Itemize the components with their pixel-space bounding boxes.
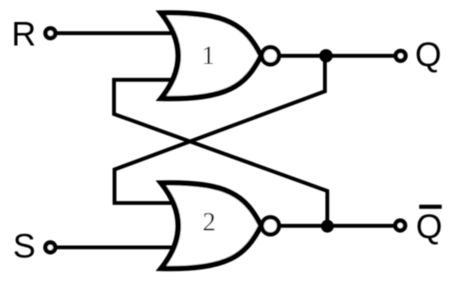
wire feedback Qbar to gate1 lower input xyxy=(114,80,327,226)
overline of Qbar xyxy=(419,205,442,209)
terminal S xyxy=(45,243,55,253)
svg-text:S: S xyxy=(13,228,36,266)
inverter bubble gate1 xyxy=(262,47,279,64)
svg-text:1: 1 xyxy=(202,41,215,70)
terminal Qbar xyxy=(395,221,405,231)
node Q junction xyxy=(319,49,332,62)
terminal R xyxy=(46,28,56,38)
wire feedback Q to gate2 upper input xyxy=(115,56,325,203)
wire S input xyxy=(55,245,174,249)
svg-text:R: R xyxy=(12,15,37,53)
node Qbar junction xyxy=(321,220,334,233)
inverter bubble gate2 xyxy=(262,217,279,234)
wire Qbar output xyxy=(281,224,394,228)
wire R input xyxy=(55,31,174,35)
terminal Q xyxy=(396,51,406,61)
nor-gate U2 body xyxy=(161,183,261,269)
wire Q output xyxy=(281,54,394,58)
svg-text:Q: Q xyxy=(415,36,441,74)
svg-text:2: 2 xyxy=(203,207,216,236)
svg-text:Q: Q xyxy=(416,208,442,246)
nor-gate U1 body xyxy=(161,13,261,99)
